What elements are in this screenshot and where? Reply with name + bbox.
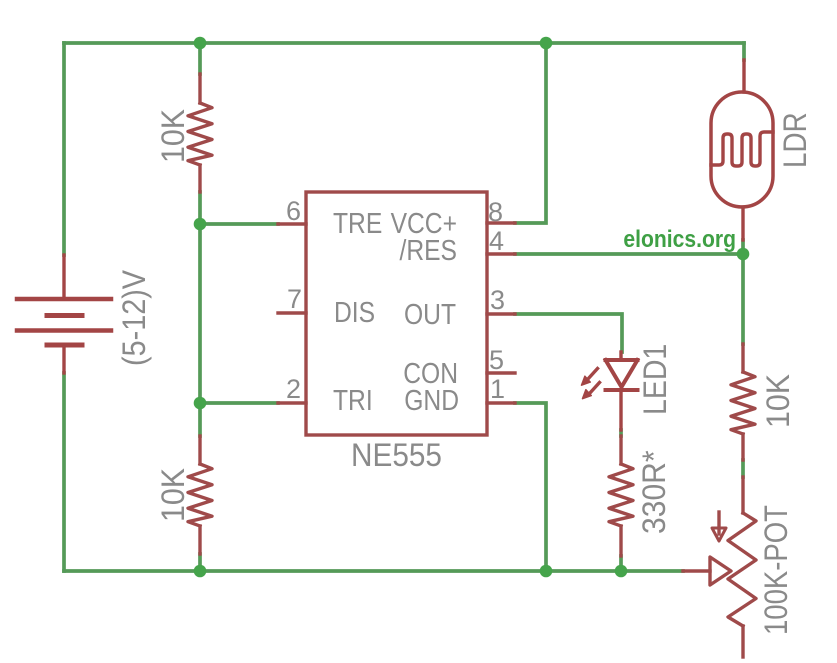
svg-text:TRE: TRE [333,207,382,239]
wire LED to R4 [619,430,623,436]
svg-text:8: 8 [488,197,503,227]
svg-text:2: 2 [286,374,301,404]
wire VCC top rail [64,41,744,45]
svg-text:330R*: 330R* [636,450,672,534]
resistor R2 [188,436,212,554]
NE555 pin 2 stub [278,401,306,404]
NE555 pin 7 stub [278,311,306,314]
svg-text:10K: 10K [760,374,796,428]
LED1 [588,352,638,430]
svg-text:LDR: LDR [778,112,813,168]
svg-text:4: 4 [489,226,504,256]
svg-text:NE555: NE555 [351,437,442,473]
svg-text:elonics.org: elonics.org [623,226,736,253]
svg-text:/RES: /RES [399,234,457,266]
wire R1 top stub net [198,43,202,74]
LED1 arrowheads [582,376,591,385]
NE555 pin 6 stub [278,222,306,225]
wire TRI to pin2 [200,401,278,405]
svg-text:GND: GND [404,384,459,416]
svg-text:10K: 10K [155,468,191,522]
wire R3 to pot [741,460,745,477]
svg-text:1: 1 [490,374,505,404]
resistor R1 [188,74,212,192]
LDR [711,60,773,240]
potentiometer 100K-POT [683,477,756,657]
battery B1 [17,255,111,373]
NE555 pin 1 stub [487,401,515,404]
svg-text:6: 6 [286,196,301,226]
wire LDR node vertical [741,240,745,344]
svg-text:7: 7 [287,284,302,314]
wire left vertical upper [62,43,66,255]
node GND-R4 [615,565,628,578]
NE555 box U1 [306,192,487,435]
wire TRE to pin6 [200,222,278,226]
svg-text:LED1: LED1 [639,344,674,415]
node VCC-R1 [194,37,207,50]
NE555 pin 4 stub [487,252,515,255]
NE555 pin 3 stub [487,312,515,315]
resistor R4 330R [609,436,633,556]
node GND-pin1 [540,565,553,578]
NE555 pin 8 stub [487,221,515,224]
wire pin1 GND down [515,403,546,571]
svg-text:TRI: TRI [333,384,373,416]
wire R4 bottom to rail [619,556,623,571]
svg-text:5: 5 [489,345,504,375]
wire VCC to LDR [742,43,746,60]
svg-text:100K-POT: 100K-POT [759,505,794,635]
resistor R3 [731,344,755,460]
svg-text:DIS: DIS [334,296,375,328]
wire left vertical lower [62,373,66,571]
wire VCC to pin8 [515,43,546,223]
svg-text:(5-12)V: (5-12)V [117,269,153,366]
node GND-R2 [194,565,207,578]
NE555 pin 5 stub [487,371,515,374]
svg-text:3: 3 [490,285,505,315]
node VCC-pin8 [540,37,553,50]
svg-text:OUT: OUT [404,298,456,330]
node TRI [194,397,207,410]
svg-text:10K: 10K [155,109,191,163]
wire pin3 OUT to LED [515,314,622,352]
junction node dots [194,37,750,578]
wire pin4 RES to LDR node [515,252,743,256]
node TRE [194,218,207,231]
wire GND bottom rail [64,569,683,573]
wire TRE node vertical [198,192,202,436]
wire R2 bottom to rail [198,554,202,571]
node LDR-RES [737,248,750,261]
